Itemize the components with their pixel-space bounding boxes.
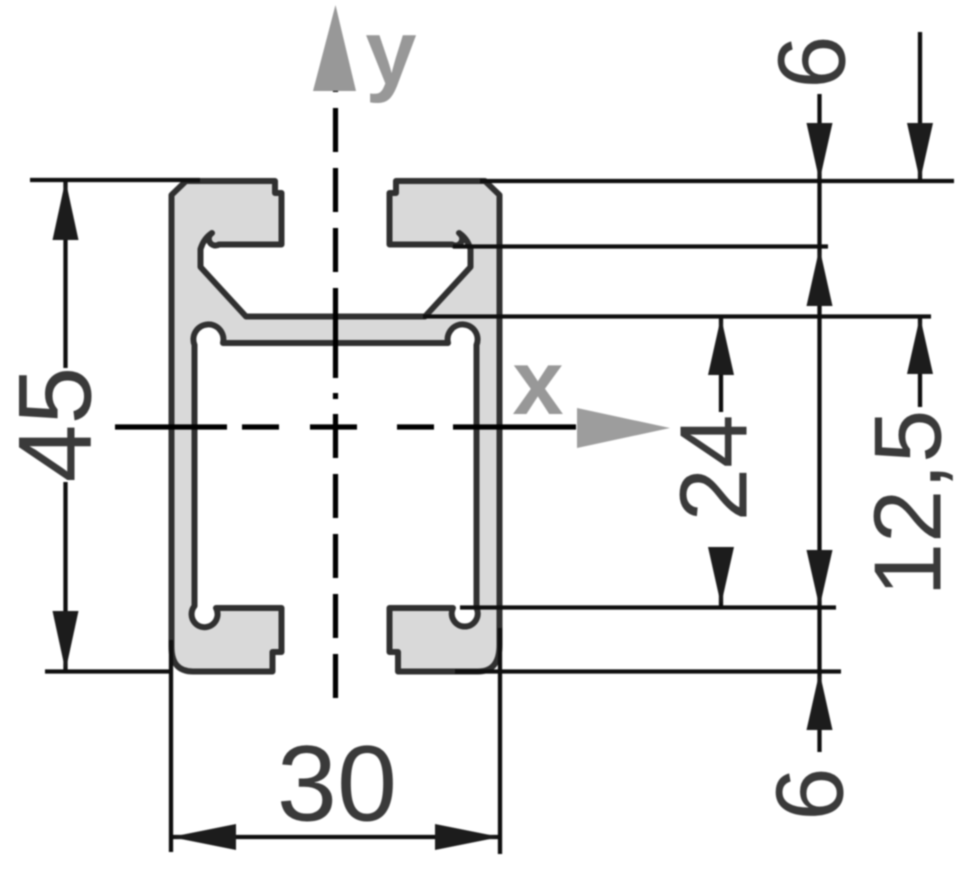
svg-text:6: 6 [759, 35, 866, 88]
svg-text:45: 45 [0, 367, 114, 483]
svg-text:30: 30 [277, 723, 397, 844]
svg-text:24: 24 [661, 415, 768, 522]
svg-text:x: x [512, 332, 563, 434]
svg-text:6: 6 [757, 767, 864, 820]
svg-text:12,5: 12,5 [855, 410, 962, 597]
svg-text:y: y [365, 2, 416, 104]
